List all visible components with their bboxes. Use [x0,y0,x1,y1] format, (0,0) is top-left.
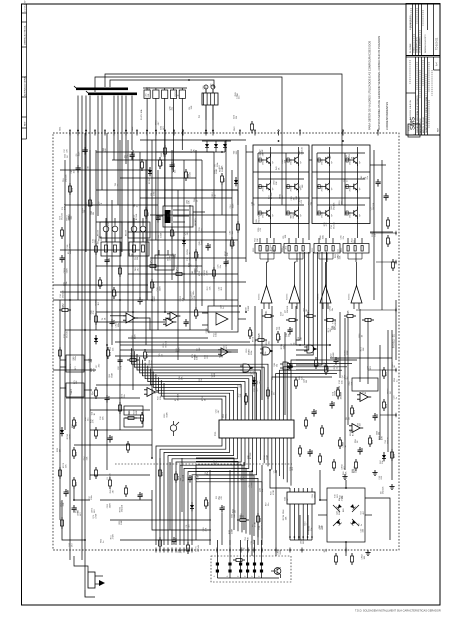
svg-text:E N G E N H A R I A: E N G E N H A R I A [409,100,412,120]
label Q24 [191,148,195,153]
wire bus drop [101,96,103,191]
wire relay drop [205,120,207,133]
wire upper link [156,151,214,153]
label D87 [246,305,250,310]
wire base feed [258,159,265,161]
wire bus drop [113,96,115,161]
label T18 [63,174,67,182]
wire jack link [74,556,88,572]
label CR74 [64,267,68,273]
svg-text:100R: 100R [347,350,349,355]
wire left low link2 [74,489,90,500]
resistor R52 [147,259,159,268]
svg-text:R34: R34 [372,439,374,444]
label D17 [262,350,266,355]
label C85 [71,168,75,173]
wire left rail C [89,150,91,480]
op-amp U2 [163,318,176,326]
svg-text:1N4148: 1N4148 [258,215,260,223]
svg-text:560R: 560R [66,268,68,273]
label Q37 [178,548,182,553]
resistor R8 [387,235,393,247]
svg-text:BC548: BC548 [67,331,69,338]
wire rail feed [115,341,250,343]
svg-text:10K: 10K [301,336,303,340]
svg-text:100R: 100R [216,169,218,174]
wire fan right [272,360,357,417]
label T47 [361,510,365,515]
wire grid col base rail [257,153,259,216]
label C26 [218,264,222,269]
wire horizontal [96,265,202,267]
opto coupler OC6 [258,540,263,578]
label Q41 [69,542,73,547]
label T80 [135,267,139,272]
label Q4 [342,374,346,378]
svg-text:2N3055: 2N3055 [322,159,324,165]
svg-text:470R: 470R [113,534,115,539]
label R11 [372,232,376,237]
capacitor C7 [118,357,125,365]
label Q62 [220,304,224,309]
label Q65 [331,202,335,210]
svg-text:10K: 10K [285,234,287,238]
svg-text:MJ2955: MJ2955 [349,294,351,300]
label RV3 [192,353,196,358]
svg-text:MODIF. ASSUNTO: MODIF. ASSUNTO [419,37,422,53]
transistor QB13 [318,207,334,219]
resistor R56 [119,265,122,277]
resistor R30 [351,405,357,417]
label R2 [158,232,162,237]
wire bridge feed2 [345,480,347,488]
resistor R18 [144,349,150,361]
svg-text:560R: 560R [339,509,341,514]
label R14 [340,494,344,499]
label CR47 [260,148,264,154]
label D99 [254,387,258,392]
svg-text:1N4148: 1N4148 [340,391,342,399]
label RV73 [66,215,70,221]
label R77 [324,361,328,366]
label T31 [147,177,151,184]
svg-text:47K: 47K [183,297,185,301]
label RV86 [309,525,313,531]
label D30 [132,334,136,339]
junction [106,344,108,346]
capacitor C5 [60,255,67,263]
svg-text:560R: 560R [333,352,335,357]
wire vertical [231,170,233,330]
opto coupler OC3 [237,540,242,578]
svg-text:R49: R49 [198,253,200,258]
transistor QA21 [287,154,303,166]
wire grid down [269,224,271,239]
resistor R74 [245,393,248,405]
wire vertical [359,309,361,382]
svg-text:22K: 22K [334,326,336,330]
svg-text:1N4148: 1N4148 [287,305,289,313]
label C9 [252,522,256,527]
label R8 [324,548,328,552]
label Q80 [186,199,190,204]
wire edge stub [380,413,397,417]
svg-text:560R: 560R [222,166,224,171]
resistor R68 [109,477,112,489]
svg-text:ALTERACAO GERAL: ALTERACAO GERAL [23,75,26,96]
svg-text:R19: R19 [76,421,78,426]
label T39 [115,182,119,186]
resistor network QB [129,238,149,256]
wire vertical [159,458,161,520]
resistor R64 [95,427,98,439]
wire grid down [328,224,330,239]
wire vertical [213,152,215,306]
svg-text:470R: 470R [198,474,200,479]
svg-text:10K: 10K [194,149,196,153]
svg-text:2N3055: 2N3055 [350,185,352,191]
wire bus drop [121,96,123,253]
wire lower link [152,490,211,530]
svg-text:1N4148: 1N4148 [62,290,64,298]
svg-text:R30: R30 [354,409,356,414]
svg-text:100R: 100R [135,334,137,339]
svg-text:R43: R43 [162,161,164,166]
transistor QA23 [287,207,303,219]
label CR49 [116,321,120,327]
resistor R61 [119,402,122,414]
svg-text:100R: 100R [262,149,264,154]
label C5 [371,202,375,210]
svg-text:47K: 47K [108,222,110,226]
transistor QA12 [259,181,275,193]
svg-text:BD139: BD139 [98,230,100,236]
resistor R38 [159,467,165,479]
label R82 [361,175,365,180]
label D39 [266,340,270,345]
svg-text:560R: 560R [179,347,181,352]
svg-text:47K: 47K [93,419,95,423]
svg-text:R20: R20 [76,451,78,456]
label Q85 [199,240,203,245]
label C96 [145,93,149,98]
capacitor C14 [358,447,365,455]
svg-text:1M: 1M [276,470,278,473]
svg-text:0R22: 0R22 [253,248,255,252]
power module row line Ab [253,197,309,199]
label CR44 [172,167,176,173]
label Q75 [86,201,90,206]
label RV58 [194,354,198,360]
svg-text:CN1: CN1 [60,126,62,131]
capacitor C9 [184,319,191,327]
label RV88 [96,299,100,305]
svg-text:22K: 22K [76,380,78,384]
svg-text:MJ2955: MJ2955 [287,294,289,300]
label C4 [197,347,201,351]
resistor R76 [321,425,324,437]
reference box [408,124,420,137]
svg-text:A-4: A-4 [436,62,439,66]
wire bus drop [77,96,79,301]
svg-text:C10: C10 [292,327,294,332]
svg-text:R35: R35 [394,453,396,458]
label T9 [290,213,294,218]
svg-text:R47: R47 [148,211,150,216]
label RV83 [187,248,191,254]
label D49 [276,165,280,170]
resistor R59 [59,347,62,359]
wire grid link mid [309,159,312,161]
label D30 [280,311,284,316]
label R74 [110,534,114,539]
diode D4 [190,502,194,511]
junction [205,132,207,134]
resistor R63 [141,412,144,424]
label R34 [352,465,356,472]
wire grid col base rail [285,153,287,216]
label D47 [380,459,384,464]
IC box U11 [124,406,143,415]
wire fan left [132,348,268,417]
label C34 [338,249,342,254]
wire horizontal [112,159,202,161]
svg-text:47K: 47K [346,178,348,182]
svg-text:33K: 33K [284,159,286,163]
wire fuse drop [155,133,157,240]
label T31 [385,436,389,443]
wire relay drop2 [212,120,214,133]
wire horizontal [90,409,150,411]
wire bus drop [117,96,119,206]
op-amp U7 [349,424,363,433]
wire vertical [177,190,179,360]
wire vertical [64,160,66,430]
label D82 [257,380,261,385]
capacitor C15 [188,475,195,483]
label C11 [248,452,252,459]
label R80 [103,147,107,152]
wire left low link [62,500,85,540]
label R2 [175,393,179,401]
svg-text:BC548: BC548 [271,192,273,199]
resistor R46 [251,121,254,133]
wire base feed [286,186,293,188]
svg-text:100R: 100R [214,372,216,377]
power module box A [253,145,309,224]
wire base feed [317,186,324,188]
wire vertical [299,515,301,540]
svg-text:47K: 47K [260,227,262,231]
label R45 [299,375,304,380]
label R56 [90,418,94,423]
label RV82 [187,171,191,178]
label T50 [331,222,335,229]
transistor QA11 [259,154,275,166]
label Q3 [285,305,289,313]
wire edge stub [376,260,397,264]
svg-text:47K: 47K [180,549,182,553]
svg-text:10K: 10K [189,200,191,204]
svg-text:10K: 10K [286,516,288,520]
resistor R34 [369,435,375,447]
wire horizontal [150,214,238,216]
svg-text:R62: R62 [129,411,131,416]
label RV38 [345,349,349,355]
label R17 [158,394,162,399]
resistor R24 [249,327,255,339]
wire bus drop [81,96,83,561]
wire horizontal [90,429,152,431]
svg-text:47K: 47K [205,527,207,531]
wire vertical [183,160,185,300]
label C82 [129,252,133,257]
svg-text:1M: 1M [306,380,308,383]
label C69 [218,286,222,291]
label Q65 [214,459,218,464]
wire left rail F [132,150,134,390]
wire vertical [111,200,113,345]
comparator box [202,306,246,332]
label C34 [60,290,64,298]
wire vertical [284,332,286,415]
logic gate G1 [260,347,273,355]
resistor R31 [383,367,389,379]
wire bridge out [345,542,347,556]
label R1 [216,495,220,499]
wire vertical [271,306,273,380]
label C33 [88,358,92,363]
label C29 [394,395,398,400]
label D83 [249,350,253,355]
resistor R69 [125,485,128,497]
svg-text:22K: 22K [148,93,150,97]
label T8 [215,162,219,167]
label C64 [216,409,220,414]
resistor R45 [221,173,227,185]
label Q44 [337,255,341,260]
wire bus drop [125,96,127,165]
resistor R43 [159,157,165,169]
label D99 [343,471,347,476]
wire grid link top [246,151,253,153]
svg-text:PARA OBTER OS VALORES UTILIZAD: PARA OBTER OS VALORES UTILIZADOS E AS CO… [368,41,372,130]
label D75 [74,380,78,385]
diode D5 [234,177,238,186]
resistor R80 [355,459,358,471]
wire vertical [339,312,341,378]
capacitor C19 [206,243,213,251]
label C8 [151,190,156,196]
svg-text:REV: REV [24,121,26,126]
label R22 [91,367,96,372]
resistor R20 [73,447,79,459]
wire horizontal [120,177,196,179]
diode D2 [60,427,64,436]
capacitor C23 [105,395,112,403]
label R72 [353,468,357,473]
label C57 [89,494,93,499]
wire vertical [261,465,263,545]
resistor R75 [305,417,308,429]
wire top rail 3 [110,80,214,88]
wire horizontal [74,444,152,446]
svg-text:C16: C16 [224,505,226,510]
resistor R32 [383,399,389,411]
driver transistor T325 [318,262,332,309]
wire mid rail 3 [65,329,208,331]
svg-text:C 1 03-11-87: C 1 03-11-87 [24,0,26,12]
wire vertical bundle [296,252,326,370]
label CR21 [180,295,184,301]
label RV28 [202,395,206,401]
svg-text:2N3055: 2N3055 [291,185,293,191]
diode D7 [252,377,256,386]
label R21 [361,347,365,352]
wire grid col base rail [316,153,318,216]
label Q16 [230,241,234,246]
label R50 [101,538,105,543]
wire fuse drop [181,133,183,150]
resistor R48 [171,227,177,239]
wire vertical [195,150,197,310]
label RV12 [346,154,350,160]
capacitor C2 [384,193,391,201]
wire edge stub [356,308,397,312]
logic gate G4 [280,362,293,370]
label Q90 [212,372,216,377]
wire horizontal [96,221,146,223]
svg-text:22K: 22K [289,333,291,337]
svg-text:BC548: BC548 [183,474,185,481]
module box M3 [352,378,378,391]
label Q77 [249,482,253,487]
wire vertical [181,458,183,512]
wire horizontal [60,169,150,171]
svg-text:0R22: 0R22 [312,248,314,252]
capacitor C30 [308,449,315,457]
svg-text:560R: 560R [303,539,305,544]
resistor R72 [295,377,298,389]
label T19 [333,319,337,323]
resistor R2 [286,319,298,322]
label R71 [328,328,332,333]
capacitor C3 [83,147,90,155]
junction [342,140,344,142]
driver transistor T266 [259,262,273,309]
resistor R21 [73,477,79,489]
wire rail feed3 [115,355,222,357]
svg-text:BC548: BC548 [198,544,200,551]
svg-text:OUTROS MODELOS DE GERADOR SENO: OUTROS MODELOS DE GERADOR SENOIDAL CONSU… [377,36,381,130]
wire grid col rail [328,147,330,224]
label T69 [303,307,307,311]
label T70 [64,331,68,338]
svg-text:22K: 22K [284,345,286,349]
svg-text:47K: 47K [66,148,68,152]
label D28 [235,92,239,97]
label T26 [199,226,203,230]
label D82 [192,269,196,274]
label T60 [233,150,237,155]
svg-text:CORRESPONDENTES: CORRESPONDENTES [385,102,389,130]
label C32 [308,201,312,206]
label C32 [100,415,104,420]
wire fuse drop [173,133,175,172]
label C51 [110,346,114,351]
label R33 [237,383,241,388]
capacitor C27 [172,537,179,545]
